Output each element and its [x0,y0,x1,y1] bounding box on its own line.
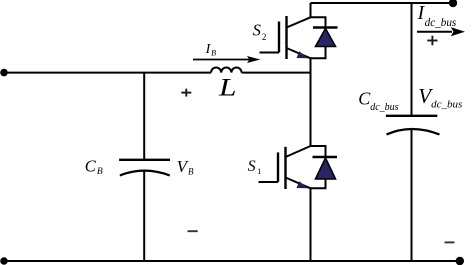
wire S2 collector stub [310,3,312,17]
label S_1 [248,158,262,176]
capacitor C_dc_bus [386,116,440,135]
wire C_dc_bus bottom lead [411,130,413,262]
current arrow I_dc_bus [417,27,465,36]
node battery - terminal (dot bottom left) [0,257,8,265]
wire D1 anode-emitter jog [311,179,326,188]
node dc bus + terminal (dot top right) [449,0,457,7]
label I_B [205,42,216,58]
svg-text:L: L [218,75,237,102]
wire C_dc_bus top lead [411,3,413,116]
label + (I_dc_bus polarity) [427,36,437,46]
current arrow I_B [193,56,261,63]
wire bottom rail [3,260,460,262]
wire D2 anode-emitter jog [311,47,326,59]
node battery + terminal (dot top left) [0,69,8,77]
label - (V_dc_bus polarity) [445,241,455,243]
label C_B [85,156,103,177]
label L [218,75,237,102]
transistor S1 (IGBT) [259,146,311,189]
wire S1 collector-diode jog [311,146,326,157]
capacitor C_B [119,160,170,176]
label - (V_B polarity) [188,230,198,232]
label V_dc_bus [418,84,462,110]
diode D2 (antiparallel of S2) [313,28,338,47]
wire S1 emitter to bottom rail [310,188,312,261]
label V_B [177,157,194,177]
wire C_B top lead [143,73,145,160]
diode D1 (antiparallel of S1) [313,157,338,179]
label S_2 [253,21,267,42]
inductor L [211,68,242,73]
node dc bus - terminal (dot bottom right) [456,257,464,265]
label I_dc_bus [417,3,457,29]
wire left input to inductor [3,72,211,74]
label C_dc_bus [358,89,398,113]
label + (V_B polarity) [181,89,191,97]
wire top dc bus rail [311,2,454,4]
wire S2 collector-diode jog [311,17,326,27]
wire half-bridge midpoint vertical [310,58,312,146]
wire C_B bottom lead [143,171,145,261]
transistor S2 (IGBT) [260,16,311,59]
wire inductor to half-bridge midpoint [242,72,311,74]
